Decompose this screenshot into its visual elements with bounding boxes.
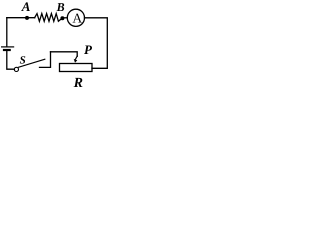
svg-text:A: A bbox=[72, 11, 82, 26]
svg-text:S: S bbox=[20, 55, 26, 67]
svg-text:A: A bbox=[21, 0, 31, 14]
svg-text:B: B bbox=[56, 0, 65, 14]
svg-text:R: R bbox=[73, 76, 83, 90]
svg-text:P: P bbox=[84, 42, 93, 57]
